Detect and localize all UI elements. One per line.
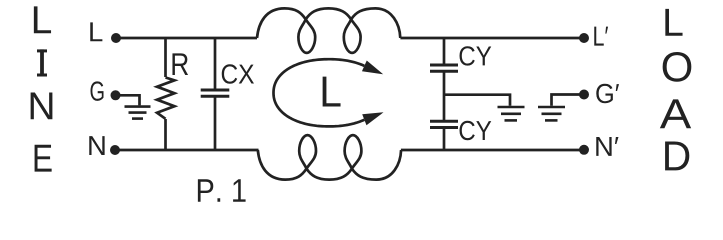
inductor choke bottom winding	[258, 135, 401, 180]
label CX	[222, 64, 254, 83]
label LINE letter N	[31, 92, 53, 119]
label R	[172, 53, 188, 75]
wire: CY middle lead	[443, 71, 446, 121]
label LOAD letter O	[663, 52, 692, 82]
wire: choke top-right to L' node	[400, 37, 584, 40]
node G' terminal dot	[579, 90, 589, 100]
label L (line terminal)	[90, 22, 102, 41]
flux arrowhead top	[362, 60, 383, 74]
capacitor CY (bottom)	[430, 121, 458, 127]
label LINE letter E	[35, 145, 52, 172]
label CY top	[460, 46, 492, 65]
ground symbol (middle right)	[498, 107, 525, 120]
flux ellipse arrows of choke	[274, 59, 365, 126]
label N (neutral terminal)	[89, 136, 104, 155]
label CY bottom	[460, 121, 492, 140]
wire: G' node to ground	[552, 95, 585, 106]
node G terminal dot	[111, 90, 121, 100]
wire: CY midpoint to ground	[444, 95, 510, 106]
label L (choke inductance)	[323, 77, 341, 107]
ground symbol (left, at G)	[125, 107, 151, 119]
wire: resistor bottom lead	[164, 119, 167, 150]
node N' terminal dot	[579, 145, 589, 155]
label LINE letter L	[34, 6, 51, 33]
inductor choke top winding	[257, 8, 400, 53]
label LINE letter I (serifed)	[37, 49, 47, 76]
caption P. 1	[198, 179, 246, 202]
wire: CY top lead	[443, 38, 446, 65]
ground symbol (right, at G')	[538, 107, 565, 120]
flux arrowhead bottom	[362, 112, 383, 125]
label G (ground terminal)	[91, 81, 104, 100]
wire: CX bottom lead	[214, 96, 217, 150]
node L' terminal dot	[579, 33, 589, 43]
resistor R	[157, 78, 175, 119]
label LOAD letter D	[665, 142, 689, 171]
wire: CX top lead	[214, 38, 217, 90]
node L terminal dot	[111, 33, 121, 43]
wire: resistor top lead	[164, 38, 167, 77]
label LOAD letter L	[665, 9, 682, 36]
label N' (load neutral)	[596, 137, 618, 156]
label G' (load ground)	[596, 84, 619, 103]
label L' (load line)	[594, 27, 608, 46]
wire: G node to ground	[116, 95, 140, 105]
wire: L node to choke top-left	[116, 37, 257, 40]
node N terminal dot	[110, 145, 120, 155]
wire: N node to choke bottom-left	[115, 149, 259, 152]
label LOAD letter A	[660, 99, 691, 128]
capacitor CX	[201, 90, 230, 96]
wire: CY bottom lead	[443, 128, 446, 151]
capacitor CY (top)	[430, 65, 458, 71]
wire: choke bottom-right to N' node	[401, 149, 584, 152]
